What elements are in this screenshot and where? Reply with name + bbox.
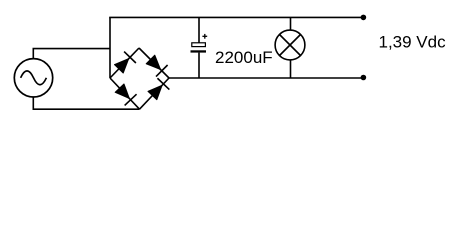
lamp LP1 [275,30,305,60]
wire: capacitor top lead [198,17,200,42]
diode D1 (upper-left edge, anode L, cathode T) [113,52,136,75]
capacitor C1 top plate [192,43,206,47]
capacitor C1 bottom plate [191,50,207,52]
AC source V1 [14,59,52,97]
wire: lamp top lead [290,17,292,30]
svg-text:1,39 Vdc: 1,39 Vdc [379,32,447,51]
wire: AC top lead [33,49,110,59]
bridge edge wire T-R [139,48,169,78]
wire: top rail [109,16,363,18]
diode D2 (upper-right edge, anode T, cathode R) [145,54,168,77]
capacitor C1 plus sign [202,34,207,39]
wire: AC bottom lead [33,97,139,109]
diode D3 (lower-left edge, anode L, cathode B) [114,83,137,106]
wire: mid rail from bridge right corner [169,77,363,79]
svg-text:2200uF: 2200uF [215,48,273,67]
wire: lamp bottom lead [290,60,292,78]
bridge edge wire L-B [110,78,140,109]
node: positive output terminal [361,15,367,21]
node: negative output terminal [361,75,367,81]
bridge edge wire L-T [110,48,139,78]
wire: bridge left vertical to top rail [109,17,111,78]
bridge edge wire B-R [140,78,170,109]
wire: capacitor bottom lead [198,53,200,78]
diode D4 (lower-right edge, anode B, cathode R) [146,78,169,101]
